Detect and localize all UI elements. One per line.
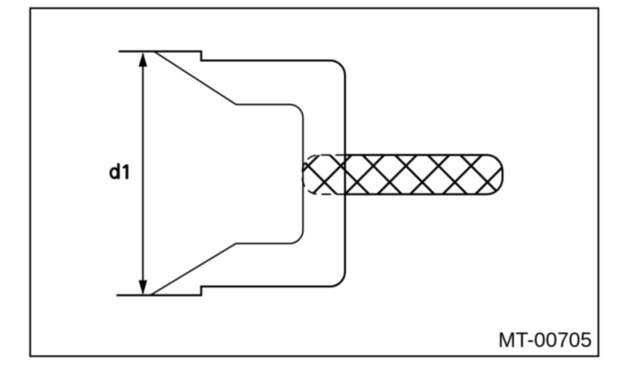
dimension line d1	[139, 52, 148, 295]
'1' flag	[123, 164, 126, 168]
socket outer body profile	[116, 51, 345, 295]
shaft (hatched rod)	[279, 154, 533, 195]
svg-text:MT-00705: MT-00705	[498, 329, 592, 352]
'1' stem	[126, 164, 129, 179]
"\" diagonals (45 deg, spaced 32.6)	[296, 154, 337, 195]
"/" diagonals (45 deg, spaced 32.6)	[279, 154, 320, 195]
'd' bowl	[111, 168, 118, 178]
socket inner cavity profile	[151, 52, 304, 295]
visible (solid) outline of the rod	[345, 155, 503, 194]
hidden (dashed) outline of the rod inside the socket	[303, 155, 346, 194]
'd' stem	[117, 163, 120, 179]
label d1 (drawn as shapes: bold condensed 'd' and '1')	[111, 163, 129, 179]
